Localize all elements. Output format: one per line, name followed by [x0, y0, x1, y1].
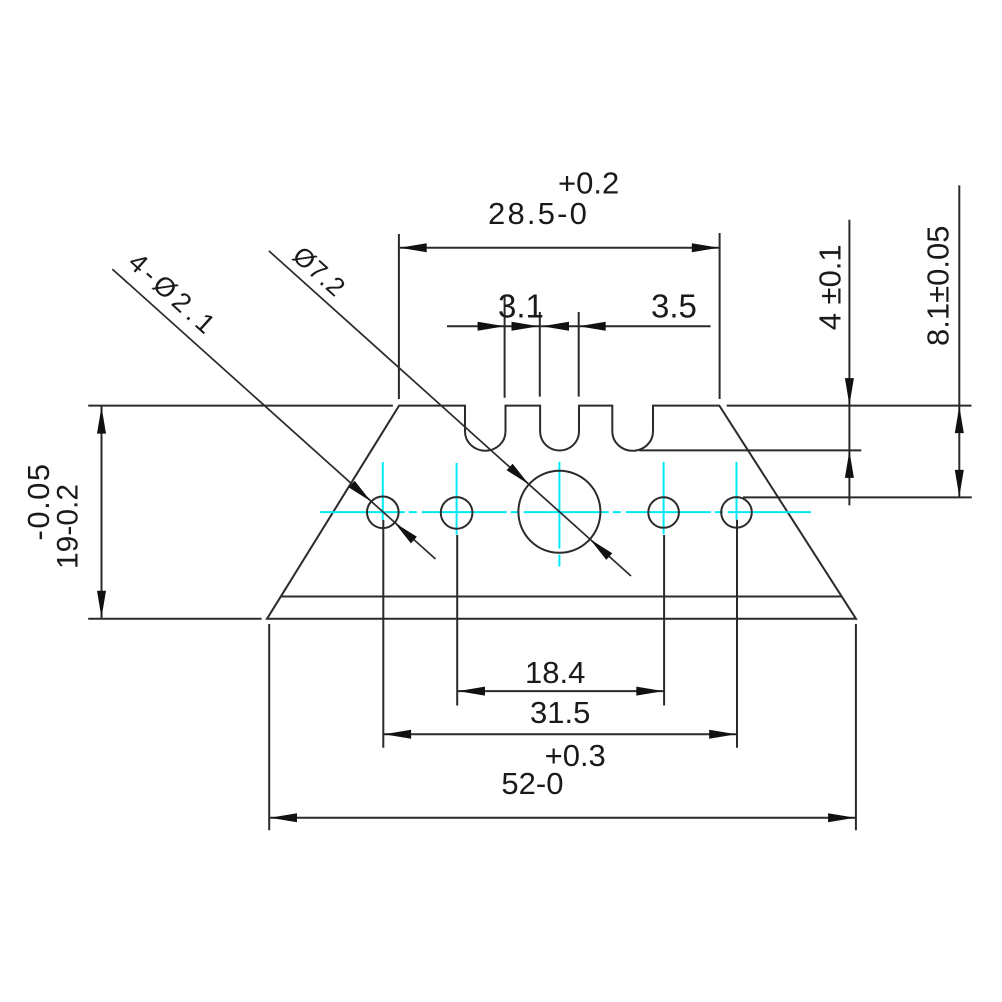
- arrowheads dimension 19: [97, 407, 106, 434]
- svg-text:8.1±0.05: 8.1±0.05: [920, 226, 955, 346]
- svg-text:Ø7.2: Ø7.2: [287, 240, 352, 303]
- dimension 52 extension lines: [269, 624, 856, 830]
- dimension 4 line: [848, 220, 850, 506]
- dimension 28.5 line: [399, 247, 720, 249]
- dimension 3.1 3.5 line: [447, 325, 711, 327]
- arrowheads dimension 8.1: [955, 406, 964, 433]
- svg-text:31.5: 31.5: [530, 695, 590, 730]
- leader line 4-dia2.1: [112, 269, 435, 559]
- dimension 8.1 extension line: [743, 496, 972, 498]
- svg-text:52-0: 52-0: [501, 766, 563, 801]
- svg-text:3.1: 3.1: [498, 288, 544, 325]
- hole 5 small: [721, 497, 752, 528]
- dimension 4 extension line: [640, 449, 862, 451]
- dimension 31.5 line: [383, 733, 737, 735]
- top edge extension line right segment: [727, 405, 972, 407]
- dimension 52 line: [269, 817, 856, 819]
- svg-text:-0.05: -0.05: [21, 462, 56, 540]
- centerline vertical hole 4: [663, 462, 665, 534]
- dimension 3.1 3.5 extension lines: [505, 297, 579, 398]
- arrowheads dimension 52: [270, 813, 297, 822]
- centerline vertical hole 1: [382, 462, 384, 520]
- svg-text:19-0.2: 19-0.2: [52, 484, 85, 569]
- dimension 28.5 extension lines: [399, 233, 720, 399]
- dimension 18.4 line: [457, 690, 664, 692]
- centerline vertical hole 2: [456, 463, 458, 535]
- hole 4 small: [648, 497, 679, 528]
- leader line dia7.2: [269, 251, 631, 576]
- arrowheads leader dia7.2 at center hole: [507, 464, 529, 485]
- dimension 19 line: [101, 406, 103, 619]
- blade bevel edge line: [281, 596, 842, 598]
- svg-text:+0.2: +0.2: [558, 166, 619, 201]
- bottom edge extension line left: [88, 618, 261, 620]
- svg-text:3.5: 3.5: [651, 288, 697, 325]
- arrowheads dimension 28.5: [400, 243, 427, 252]
- arrowheads dimension 3.5: [542, 322, 569, 331]
- svg-text:18.4: 18.4: [525, 655, 585, 690]
- arrowheads leader 4-dia2.1 at hole 1: [349, 481, 371, 502]
- center hole large: [518, 471, 600, 553]
- svg-text:4 ±0.1: 4 ±0.1: [813, 244, 848, 330]
- centerline vertical center hole: [558, 462, 560, 567]
- svg-text:4-Ø2.1: 4-Ø2.1: [123, 247, 224, 343]
- dimension 31.5 extension lines: [383, 520, 737, 748]
- dimension 18.4 extension lines: [457, 535, 664, 706]
- blade outline (trapezoid with 3 notches): [267, 406, 856, 619]
- centerline vertical hole 5: [736, 462, 738, 520]
- top edge extension line left segment: [88, 405, 393, 407]
- hole 2 small: [441, 497, 473, 529]
- centerline horizontal through holes: [320, 511, 811, 513]
- svg-text:28.5-0: 28.5-0: [488, 196, 589, 231]
- arrowheads dimension 3.1: [478, 322, 505, 331]
- arrowheads dimension 4: [845, 378, 854, 405]
- arrowheads dimension 18.4: [458, 687, 485, 696]
- dimension 8.1 line: [958, 185, 960, 497]
- arrowheads dimension 31.5: [384, 730, 411, 739]
- hole 1 small: [367, 497, 399, 529]
